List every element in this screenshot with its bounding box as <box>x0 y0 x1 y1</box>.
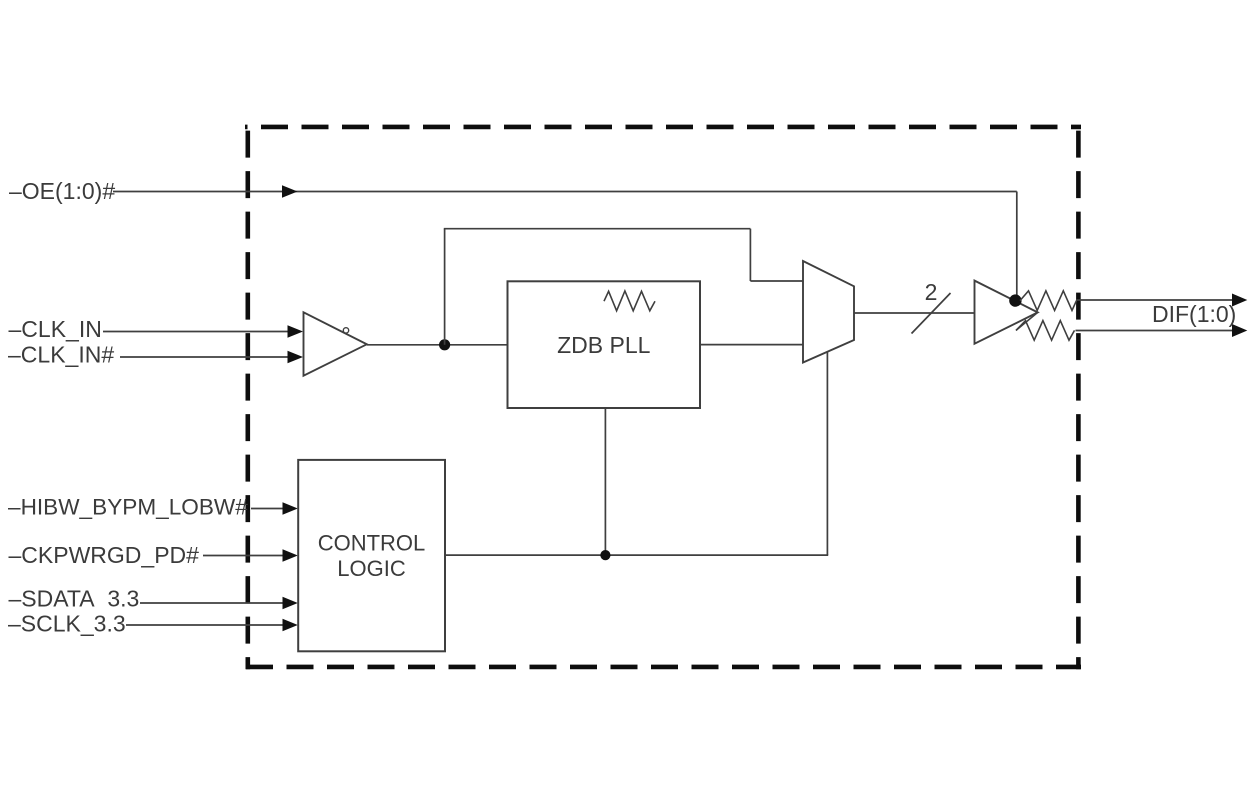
wire CLK_IN <box>103 331 298 333</box>
svg-text:–CKPWRGD_PD#: –CKPWRGD_PD# <box>9 542 200 568</box>
bus slash <box>912 293 951 334</box>
wire CKPWRGD_PD# <box>203 555 293 557</box>
arrowhead DIF complement <box>1232 324 1247 337</box>
wire SCLK <box>126 624 293 626</box>
wire apex to lower resistor <box>1016 312 1038 330</box>
wire SDATA <box>140 602 293 604</box>
node junction dot OE on output buffer <box>1009 294 1021 306</box>
svg-text:–OE(1:0)#: –OE(1:0)# <box>9 178 115 204</box>
wire DIF complement output <box>1076 330 1234 332</box>
svg-text:ZDB PLL: ZDB PLL <box>557 332 651 358</box>
ZDB PLL box <box>508 281 701 408</box>
wire feedback into mux top input <box>750 280 803 282</box>
arrowhead HIBW_BYPM_LOBW# <box>283 502 298 515</box>
svg-text:CONTROL: CONTROL <box>318 531 426 556</box>
resistor lower output zigzag <box>1016 321 1075 341</box>
wire DIF true output <box>1077 299 1234 301</box>
node junction dot at buffer output <box>439 339 450 350</box>
svg-text:DIF(1:0): DIF(1:0) <box>1152 301 1236 327</box>
wire ZDB PLL output to mux bottom input <box>700 344 803 346</box>
wire ZDB PLL bottom to control wire <box>604 408 606 555</box>
output buffer U2 triangle <box>975 281 1038 344</box>
wire feedback step down <box>749 229 751 281</box>
arrowhead CLK_IN <box>288 325 304 338</box>
resistor zigzag inside ZDB PLL <box>604 291 655 311</box>
wire OE vertical drop to output buffer <box>1016 192 1018 301</box>
svg-text:–SCLK_3.3: –SCLK_3.3 <box>8 611 126 637</box>
arrowhead CKPWRGD_PD# <box>283 549 298 562</box>
wire CLK_IN# <box>120 356 298 358</box>
input buffer U1 triangle <box>304 312 367 375</box>
wire control logic to mux select <box>445 554 828 556</box>
wire HIBW_BYPM_LOBW# <box>251 508 293 510</box>
arrowhead SCLK <box>283 619 298 632</box>
wire feedback vertical up <box>444 229 446 345</box>
wire mux select vertical <box>826 352 828 556</box>
bubble on input buffer edge <box>343 328 348 333</box>
control logic box <box>298 460 445 651</box>
arrowhead OE <box>282 185 298 198</box>
wire OE horizontal <box>113 191 1017 193</box>
arrowhead DIF true <box>1232 294 1247 307</box>
svg-text:LOGIC: LOGIC <box>337 556 406 581</box>
wire mux output to output buffer <box>854 312 975 314</box>
svg-text:–CLK_IN#: –CLK_IN# <box>8 342 114 368</box>
svg-text:–HIBW_BYPM_LOBW#: –HIBW_BYPM_LOBW# <box>8 495 248 520</box>
arrowhead SDATA <box>283 597 298 610</box>
resistor upper output zigzag <box>1020 291 1077 311</box>
svg-text:–SDATA 3.3: –SDATA 3.3 <box>9 586 140 612</box>
node junction dot control wire <box>600 550 610 560</box>
mux trapezoid <box>803 261 854 363</box>
svg-text:2: 2 <box>925 279 938 305</box>
wire buffer output to ZDB PLL <box>367 344 508 346</box>
arrowhead CLK_IN# <box>288 351 304 364</box>
wire feedback top horizontal <box>444 228 751 230</box>
chip boundary dashed box <box>245 125 1081 670</box>
svg-text:–CLK_IN: –CLK_IN <box>9 316 102 342</box>
